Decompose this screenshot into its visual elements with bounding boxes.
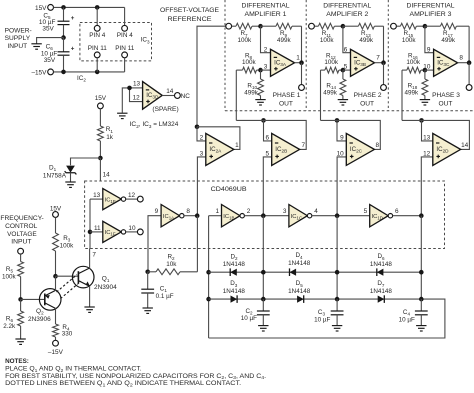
resistor 13 499k	[343, 23, 384, 44]
svg-text:5: 5	[364, 208, 368, 215]
resistor 9 499k	[261, 23, 302, 44]
svg-text:100k: 100k	[324, 59, 339, 66]
label IC2 IC3 = LM324	[130, 121, 179, 129]
wire pin4 stub IC3	[124, 7, 126, 25]
svg-text:1: 1	[235, 142, 239, 149]
inverter IC1F	[103, 221, 126, 242]
junction bottom rail / pin11 line	[95, 70, 100, 75]
svg-text:IC1E: IC1E	[105, 197, 116, 204]
wire inverting input IC2C	[337, 120, 346, 140]
wire pin11 stub IC3	[124, 58, 126, 72]
dashed bottom edge diff amp boxes	[225, 110, 474, 112]
wire R1 to pin14 node	[99, 141, 101, 158]
resistor 16 100k	[402, 53, 425, 73]
junction IC1D output column D tap	[419, 213, 424, 218]
svg-text:1N4148: 1N4148	[288, 260, 311, 267]
pin 14 label IC2D	[461, 142, 469, 149]
label DIFFERENTIAL AMPLIFIER 2	[323, 3, 371, 19]
wire R8 column to IC2B node	[236, 119, 263, 121]
wire output to phase terminal amp 3	[468, 63, 470, 85]
pin 1 label amp 1	[296, 54, 300, 61]
wire R2 right to IC1A output	[196, 216, 198, 272]
label NOTES	[5, 358, 29, 365]
svg-text:DIFFERENTIAL: DIFFERENTIAL	[407, 3, 455, 10]
capacitor C4 10uF	[399, 299, 428, 325]
transistor Q2 2N3906 PNP	[28, 289, 61, 323]
svg-text:14: 14	[103, 172, 111, 179]
wire noninverting input amp 1	[261, 69, 271, 71]
wire inverting input amp 3	[425, 26, 434, 53]
pin 6 label IC2B	[266, 134, 270, 141]
svg-text:3: 3	[200, 150, 204, 157]
wire pin14 into CD4069 box	[99, 158, 101, 181]
wire noninverting input IC2C from inverter tap	[337, 157, 346, 216]
svg-text:1N4148: 1N4148	[223, 261, 246, 268]
wire base node to R6	[20, 299, 22, 311]
pin 14 label CD4069	[103, 172, 111, 179]
pin 13 label IC3D	[133, 81, 141, 88]
junction IC1F input	[88, 230, 93, 235]
svg-text:PIN 11: PIN 11	[115, 45, 135, 52]
wire diode column D	[420, 216, 422, 299]
note line 2	[5, 373, 266, 380]
inverter IC1B	[222, 205, 245, 227]
ground IC3D inputs	[117, 113, 127, 118]
wire IC3D output	[162, 95, 174, 97]
junction IC1C output column C tap	[335, 213, 340, 218]
node input terminal diff amp 1	[226, 23, 232, 29]
junction feedback node IC2A	[195, 125, 200, 130]
svg-text:499k: 499k	[359, 37, 374, 44]
junction noninverting node amp 3	[423, 68, 428, 73]
wire diode column B	[262, 216, 264, 299]
wire junction to D1	[71, 158, 101, 165]
wire Q1 emitter to ground	[89, 286, 91, 307]
svg-text:AMPLIFIER 2: AMPLIFIER 2	[326, 11, 368, 18]
wire IC1B input from diode column A	[209, 215, 222, 217]
wire bottom -15V rail	[54, 71, 125, 73]
ground below 10	[255, 100, 265, 105]
svg-text:OUT: OUT	[279, 101, 293, 108]
junction output/feedback amp 2	[381, 60, 386, 65]
wire inverting input amp 1	[261, 26, 271, 53]
svg-text:4: 4	[314, 208, 318, 215]
junction output/feedback amp 3	[467, 60, 472, 65]
pin 3 label	[264, 64, 268, 71]
pin 2 label	[264, 46, 268, 53]
node PHASE 1 OUT terminal	[273, 85, 305, 108]
svg-text:OUT: OUT	[439, 101, 453, 108]
dashed box CD4069UB	[85, 181, 445, 249]
label (SPARE)	[152, 106, 178, 113]
pin 10 label IC1F	[128, 225, 136, 232]
svg-text:DIFFERENTIAL: DIFFERENTIAL	[242, 3, 290, 10]
pin PIN 11 of IC3	[115, 45, 135, 58]
svg-text:FREQUENCY-: FREQUENCY-	[0, 215, 43, 222]
node input terminal diff amp 2	[309, 23, 315, 29]
svg-text:POWER-: POWER-	[5, 28, 32, 35]
svg-text:8: 8	[186, 208, 190, 215]
svg-text:6: 6	[344, 46, 348, 53]
svg-text:INPUT: INPUT	[7, 43, 27, 50]
junction IC1B output column B tap	[261, 213, 266, 218]
junction feedback node IC2B	[261, 118, 266, 123]
junction C5/C6 midpoint	[61, 35, 66, 40]
capacitor C3 10uF	[314, 299, 343, 325]
resistor R6 2.2k	[3, 311, 23, 330]
wire noninverting input IC2D from inverter tap	[421, 157, 433, 216]
wire R4 to -15V	[55, 337, 57, 340]
pin 9 label IC1A	[155, 208, 159, 215]
svg-text:11: 11	[94, 225, 101, 232]
svg-text:OFFSET-VOLTAGE: OFFSET-VOLTAGE	[160, 7, 219, 14]
svg-text:499k: 499k	[244, 89, 259, 96]
svg-text:330: 330	[62, 331, 73, 338]
svg-text:PIN 4: PIN 4	[89, 32, 105, 39]
svg-text:PIN 4: PIN 4	[117, 32, 133, 39]
pin 14 label IC3D output	[166, 88, 174, 95]
svg-text:DOTTED LINES BETWEEN Q1 AND Q2: DOTTED LINES BETWEEN Q1 AND Q2 INDICATE …	[5, 380, 241, 387]
ground below Q1	[84, 307, 94, 312]
svg-text:+: +	[71, 15, 75, 22]
wire R8 feed from buffer below	[235, 70, 237, 120]
wire inverting input IC2D	[422, 120, 433, 140]
svg-text:5: 5	[266, 150, 270, 157]
pin 12 label IC3D	[133, 94, 141, 101]
svg-text:REFERENCE: REFERENCE	[168, 16, 212, 23]
junction Q1 base / Q2 emitter node	[53, 274, 58, 279]
pin 9 label	[427, 46, 431, 53]
svg-text:IC1F: IC1F	[105, 230, 116, 237]
wire output amp 2	[375, 62, 384, 64]
svg-text:10k: 10k	[166, 261, 177, 268]
note line 3	[5, 380, 241, 387]
junction 11/13	[341, 24, 346, 29]
wire inverting input IC2B	[264, 120, 272, 140]
svg-text:10: 10	[337, 150, 345, 157]
wire R16 feed from buffer below	[401, 70, 403, 120]
svg-text:IC1A: IC1A	[163, 214, 174, 221]
svg-text:NOTES:: NOTES:	[5, 358, 29, 365]
svg-text:100k: 100k	[406, 59, 421, 66]
junction R1/D1/pin14	[98, 156, 103, 161]
svg-text:1N4148: 1N4148	[370, 288, 393, 295]
svg-text:1k: 1k	[106, 134, 114, 141]
svg-text:–15V: –15V	[48, 349, 64, 356]
svg-text:AMPLIFIER 1: AMPLIFIER 1	[245, 11, 287, 18]
wire Q2 collector to R4	[55, 308, 57, 324]
ground below C2	[258, 326, 268, 331]
resistor 15 100k	[396, 23, 425, 44]
junction column B rail 2	[261, 297, 266, 302]
wire spare inverter input column (pin13/11/7)	[89, 199, 91, 248]
wire feedback rail IC2D	[422, 120, 470, 149]
wire output to phase terminal amp 1	[301, 63, 303, 85]
junction 7/9	[258, 24, 263, 29]
resistor 8 100k	[236, 53, 260, 73]
junction column C rail 2	[335, 297, 340, 302]
pin 5 label IC2B	[266, 150, 270, 157]
svg-text:2N3906: 2N3906	[28, 316, 51, 323]
junction column D rail 1	[419, 270, 424, 275]
ground below 14	[338, 100, 348, 105]
pin 13 label IC1E	[93, 192, 101, 199]
dashed power-pins box	[80, 23, 152, 61]
wire bottom return rail	[209, 299, 445, 338]
ground below C4	[416, 326, 426, 331]
wire feedback down to output node amp 1	[301, 26, 303, 63]
svg-text:OUT: OUT	[360, 101, 374, 108]
pin 2 label IC2A	[200, 134, 204, 141]
inverter IC1D	[370, 205, 393, 227]
svg-text:2.2k: 2.2k	[3, 323, 16, 330]
svg-text:10 µF: 10 µF	[314, 316, 330, 323]
svg-text:NC: NC	[181, 93, 191, 100]
note line 1	[5, 365, 142, 372]
wire feedback rail IC2B	[264, 120, 307, 149]
svg-text:INPUT: INPUT	[11, 239, 31, 246]
svg-text:100k: 100k	[2, 274, 17, 281]
pin 9 label IC2C	[340, 134, 344, 141]
capacitor C6 10uF 35V	[41, 38, 75, 72]
wire IC1E input stub	[90, 198, 103, 200]
svg-text:CD4069UB: CD4069UB	[211, 186, 248, 193]
pin 7 label CD4069 VSS	[92, 251, 96, 258]
svg-text:499k: 499k	[277, 37, 292, 44]
pin 12 label IC2D	[423, 150, 431, 157]
thermal contact dashed lines Q1-Q2	[57, 275, 82, 299]
wire base node to Q2	[21, 298, 45, 300]
node 15V terminal (R3 top)	[50, 206, 62, 218]
wire noninverting input amp 3	[425, 69, 434, 71]
resistor R2 10k	[148, 254, 198, 275]
wire IC1F input stub	[90, 231, 103, 233]
resistor 10 499k to ground	[244, 70, 263, 99]
node IC1F output terminal	[137, 229, 143, 235]
pin 2 label IC1B	[247, 208, 251, 215]
wire IC1E output	[126, 198, 138, 200]
ground below R6	[15, 339, 25, 344]
capacitor C5 10uF 35V	[39, 7, 75, 37]
svg-text:–15V: –15V	[31, 70, 47, 77]
svg-text:35V: 35V	[42, 25, 54, 32]
op-amp IC2A	[206, 133, 234, 165]
node -15V terminal (R4 bottom)	[48, 340, 64, 356]
svg-text:+: +	[71, 46, 75, 53]
svg-text:2: 2	[264, 46, 268, 53]
wire R5 to base node	[20, 277, 22, 300]
wire R12 feed from buffer below	[320, 70, 322, 120]
resistor R1 1k	[98, 126, 114, 141]
label POWER-SUPPLY INPUT	[5, 28, 32, 50]
pin 13 label IC2D	[423, 134, 431, 141]
junction C1/R2 node	[145, 270, 150, 275]
label IC2 (power box)	[77, 75, 86, 83]
node PHASE 3 OUT terminal	[432, 85, 472, 108]
svg-text:SUPPLY: SUPPLY	[5, 35, 31, 42]
resistor R4 330	[53, 324, 73, 338]
ground below D1	[65, 182, 75, 187]
svg-text:2: 2	[200, 134, 204, 141]
pin 3 label IC1C	[283, 208, 287, 215]
wire noninverting input IC2A from inverter tap	[197, 157, 205, 216]
ground below C3	[332, 326, 342, 331]
svg-text:1N4148: 1N4148	[288, 288, 311, 295]
junction IC3D pins tie	[127, 86, 132, 91]
junction Q2 base node	[18, 297, 23, 302]
wire R6 to ground	[20, 326, 22, 339]
svg-text:10: 10	[128, 225, 136, 232]
svg-text:7: 7	[376, 54, 380, 61]
resistor 17 499k	[425, 23, 469, 44]
junction noninverting node amp 1	[258, 68, 263, 73]
junction column A rail 1	[206, 270, 211, 275]
junction top rail / pin4 line	[95, 5, 100, 10]
wire pin4 stub IC2	[96, 7, 98, 25]
svg-text:(SPARE): (SPARE)	[152, 106, 178, 113]
svg-text:7: 7	[301, 142, 305, 149]
pin 1 label IC1B	[215, 208, 219, 215]
wire IC1C output to IC1D input	[312, 215, 370, 217]
pin 6 label	[344, 46, 348, 53]
svg-text:6: 6	[266, 134, 270, 141]
wire top +15V rail	[54, 6, 125, 8]
diode D5 1N4148	[288, 280, 311, 303]
diode D3 1N4148	[223, 280, 246, 303]
svg-text:5: 5	[344, 64, 348, 71]
svg-text:AMPLIFIER 3: AMPLIFIER 3	[410, 11, 452, 18]
diode D2 1N4148	[223, 254, 246, 276]
svg-text:13: 13	[133, 81, 141, 88]
wire 15V to R1	[99, 109, 101, 126]
wire noninverting input amp 2	[343, 69, 351, 71]
pin 12 label IC1E	[128, 192, 136, 199]
wire R3 to Q1 base node	[55, 251, 57, 276]
junction feedback node IC2C	[335, 118, 340, 123]
svg-text:6: 6	[395, 208, 399, 215]
junction 15/17	[423, 24, 428, 29]
svg-text:PLACE Q1 AND Q2 IN THERMAL CON: PLACE Q1 AND Q2 IN THERMAL CONTACT.	[5, 365, 142, 372]
wire inverting input IC2A	[197, 127, 206, 141]
pin 7 label IC2B	[301, 142, 305, 149]
resistor 14 499k to ground	[323, 70, 346, 99]
svg-text:499k: 499k	[441, 37, 456, 44]
wire output amp 1	[295, 62, 302, 64]
op-amp IC2D	[433, 133, 461, 165]
junction bottom rail / C6	[61, 70, 66, 75]
svg-text:IC1B: IC1B	[223, 214, 234, 221]
dashed box diff amp 1 left edge	[224, 0, 226, 111]
wire Q2 emitter up to base node	[55, 276, 57, 290]
junction column D rail 2	[419, 297, 424, 302]
svg-text:15V: 15V	[35, 5, 47, 12]
junction column A rail 2	[206, 297, 211, 302]
pin 6 label IC1D	[395, 208, 399, 215]
resistor 11 100k	[314, 23, 343, 44]
svg-text:CONTROL: CONTROL	[5, 223, 38, 230]
wire Q1 collector to CD4069 pin 7	[89, 249, 91, 269]
svg-text:12: 12	[128, 192, 136, 199]
label FREQUENCY-CONTROL VOLTAGE INPUT	[0, 215, 43, 245]
wire output to phase terminal amp 2	[383, 63, 385, 85]
node NC terminal	[175, 93, 191, 100]
wire output amp 3	[458, 62, 470, 64]
svg-text:9: 9	[155, 208, 159, 215]
wire 15V to R3	[55, 217, 57, 233]
pin 11 label IC1F	[94, 225, 101, 232]
pin 1 label IC2A	[235, 142, 239, 149]
svg-text:3: 3	[264, 64, 268, 71]
svg-text:8: 8	[459, 54, 463, 61]
svg-text:DIFFERENTIAL: DIFFERENTIAL	[323, 3, 371, 10]
svg-text:100k: 100k	[320, 37, 335, 44]
svg-text:1: 1	[296, 54, 300, 61]
wire IC1D output	[393, 215, 422, 217]
junction noninverting node amp 2	[341, 68, 346, 73]
pin 3 label IC2A	[200, 150, 204, 157]
pin 8 label IC1A	[186, 208, 190, 215]
wire feedback down to output node amp 3	[468, 26, 470, 63]
inverter IC1A	[161, 205, 184, 227]
svg-text:PHASE 3: PHASE 3	[432, 92, 460, 99]
junction column B rail 1	[261, 270, 266, 275]
svg-text:100k: 100k	[402, 37, 417, 44]
label OFFSET-VOLTAGE REFERENCE	[160, 7, 219, 23]
pin 5 label IC1D	[364, 208, 368, 215]
wire R16 column to IC2D node	[402, 119, 422, 121]
wire rail 2 (lower diode row)	[209, 298, 422, 300]
resistor 18 499k to ground	[404, 70, 427, 99]
inverter IC1E	[103, 189, 126, 210]
pin PIN 4 of IC3	[117, 25, 133, 39]
wire IC1A input from C1/R2 node	[148, 216, 161, 272]
svg-text:IC1C: IC1C	[291, 214, 302, 221]
wire feedback down to output node amp 2	[383, 26, 385, 63]
wire noninverting input IC2B from inverter tap	[263, 157, 271, 216]
node +15V power input terminal	[35, 5, 53, 13]
svg-text:14: 14	[461, 142, 469, 149]
diode D1 1N758A zener	[43, 165, 77, 182]
pin 7 label amp 2	[376, 54, 380, 61]
svg-text:IC1D: IC1D	[372, 214, 383, 221]
svg-text:12: 12	[133, 94, 141, 101]
svg-text:9: 9	[427, 46, 431, 53]
inverter IC1C	[289, 205, 312, 227]
svg-text:0.1 µF: 0.1 µF	[156, 293, 174, 300]
pin 10 label IC2C	[337, 150, 345, 157]
svg-text:PIN 11: PIN 11	[88, 45, 108, 52]
node frequency control input terminal	[18, 248, 24, 254]
wire R12 column to IC2C node	[321, 119, 338, 121]
svg-text:1N4148: 1N4148	[223, 288, 246, 295]
svg-text:8: 8	[376, 142, 380, 149]
pin 10 label	[423, 64, 431, 71]
op-amp IC3B diff amp 2	[351, 49, 375, 76]
wire feedback rail IC2A	[197, 127, 240, 150]
resistor R3 100k	[53, 233, 75, 251]
wire diode column A	[208, 216, 210, 338]
op-amp IC2B	[272, 133, 300, 165]
wire base node to Q1	[56, 275, 79, 277]
svg-text:10: 10	[423, 64, 431, 71]
svg-text:1: 1	[215, 208, 219, 215]
svg-text:14: 14	[166, 88, 174, 95]
svg-text:13: 13	[423, 134, 431, 141]
ground below C1	[143, 308, 153, 313]
svg-text:10 µF: 10 µF	[399, 316, 415, 323]
label CD4069UB	[211, 186, 248, 193]
wire offset reference to IC2A node	[197, 26, 226, 124]
